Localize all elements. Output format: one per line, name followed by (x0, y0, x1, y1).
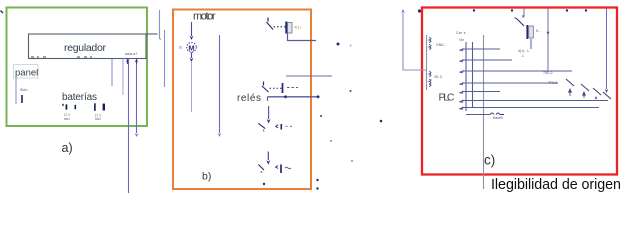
svg-text:GND.: GND. (436, 43, 445, 47)
svg-text:panel: panel (15, 68, 38, 79)
wire from K2 coil to bus (530, 39, 532, 49)
wire long bus down from regulador (128, 59, 130, 193)
PLC output bus 8 with battery switch (466, 114, 490, 116)
battery B1 plates (63, 104, 64, 106)
svg-text:Ilegibilidad de origen: Ilegibilidad de origen (491, 177, 621, 193)
subsystem box a (green frame) (7, 8, 148, 127)
contact K1a wire (268, 106, 270, 119)
wire from top edge at 548 (547, 8, 549, 71)
wire PLC long vertical to caption (483, 35, 485, 189)
wire PLC vertical 1 (465, 42, 467, 111)
wire into motor (191, 22, 193, 36)
junction dot (337, 43, 340, 46)
solar panel symbol (15, 78, 17, 104)
scattered node dots between b and c (349, 90, 351, 92)
wire right vertical (606, 8, 608, 89)
node dots on top edge (473, 9, 475, 11)
svg-text:BateB: BateB (493, 116, 503, 120)
battery B2 plates (94, 103, 96, 111)
wire from regulador down (node 2) (122, 59, 124, 95)
contact K1b blade (258, 165, 264, 171)
svg-text:PLC: PLC (439, 92, 455, 104)
svg-text:motor: motor (193, 11, 216, 23)
svg-text:baterías: baterías (62, 92, 97, 103)
relay K1 coil (285, 22, 287, 34)
label panel (with faint frame) (14, 65, 39, 79)
terminal hooks group 1 (429, 38, 431, 50)
block regulador (29, 34, 147, 59)
svg-text:K1.i: K1.i (295, 25, 302, 30)
relay K1 switch contact (267, 18, 269, 22)
wire from K1 coil down and right (288, 34, 317, 41)
wire arrow into regulador pin1 (127, 59, 129, 64)
contact cascade blade 2 (581, 84, 589, 91)
svg-text:c): c) (484, 153, 495, 168)
node dot at c top-left (418, 9, 421, 12)
PLC output bus 3 (460, 71, 573, 73)
relay contact row 2 (263, 82, 265, 86)
wire below motor (191, 52, 193, 58)
PLC output bus 2 (460, 60, 513, 62)
wire from top edge at 524 (523, 8, 525, 17)
contact K1a terminal marks (276, 125, 279, 128)
subsystem box c (red frame) (422, 8, 617, 175)
wire upper relés row going right (286, 75, 332, 77)
svg-text:bat1: bat1 (64, 117, 70, 121)
svg-text:bat2: bat2 (95, 117, 101, 121)
wire lower relés row with junctions (268, 96, 320, 98)
svg-text:S:: S: (179, 46, 183, 50)
svg-text:75D.2: 75D.2 (543, 71, 553, 75)
PLC output bus 7 (long) (460, 108, 600, 110)
svg-text:TRI.C: TRI.C (548, 81, 558, 85)
stray mark top-left (1, 11, 4, 14)
svg-text:K..: K.. (536, 29, 541, 33)
pin labels under regulador (illegible) (31, 56, 46, 58)
contact K1a blade (258, 123, 265, 128)
node dots right of box b (316, 179, 318, 181)
relay K2 coil cluster top (516, 18, 524, 26)
contact cascade blade 4 (603, 92, 611, 99)
wire PLC vertical 2 (472, 42, 474, 107)
PLC input terminal rail (426, 35, 428, 90)
motor M1 (dotted circle) (187, 43, 197, 53)
wire from regulador ending in arrow (136, 64, 138, 133)
svg-text:Ca+ s: Ca+ s (456, 31, 466, 35)
PLC output bus 6 (long) (460, 101, 609, 103)
terminal hooks group 2 (429, 72, 431, 87)
wire entering c from left (403, 13, 426, 70)
svg-text:Vin: Vin (459, 38, 464, 42)
PLC output bus 5 (460, 92, 501, 94)
subsystem box b (orange frame) (173, 10, 311, 190)
node dot below b (263, 183, 265, 185)
svg-text:. 1: . 1 (520, 54, 524, 58)
PLC output bus 4 (460, 83, 559, 85)
wire from regulador down (node 1) (111, 59, 113, 86)
contact K1b terminal marks (276, 166, 278, 169)
svg-text:Sol.r: Sol.r (20, 88, 29, 92)
svg-text:B1.2.: B1.2. (435, 75, 443, 79)
svg-text:b): b) (202, 171, 211, 183)
wire regulador box top extension (146, 33, 158, 35)
wire stub between a and b (upper) (160, 10, 162, 40)
svg-text:a): a) (62, 141, 73, 155)
svg-text:regulador: regulador (64, 42, 107, 54)
svg-text:4(1) . L: 4(1) . L (518, 49, 529, 53)
contact K1b wire (267, 152, 269, 161)
wire stub between a and b (lower) (164, 30, 166, 87)
wire arrow into regulador pin2 (136, 59, 138, 64)
svg-text:M: M (188, 43, 194, 52)
contact cascade blade 1 (566, 79, 574, 86)
contact cascade blade 3 (593, 88, 601, 95)
svg-text:awa.a?.: awa.a?. (125, 52, 138, 56)
junction dot (350, 45, 352, 47)
svg-text:relés: relés (237, 93, 261, 104)
wire vertical mid box b (219, 35, 221, 133)
PLC output bus 1 (460, 49, 501, 51)
